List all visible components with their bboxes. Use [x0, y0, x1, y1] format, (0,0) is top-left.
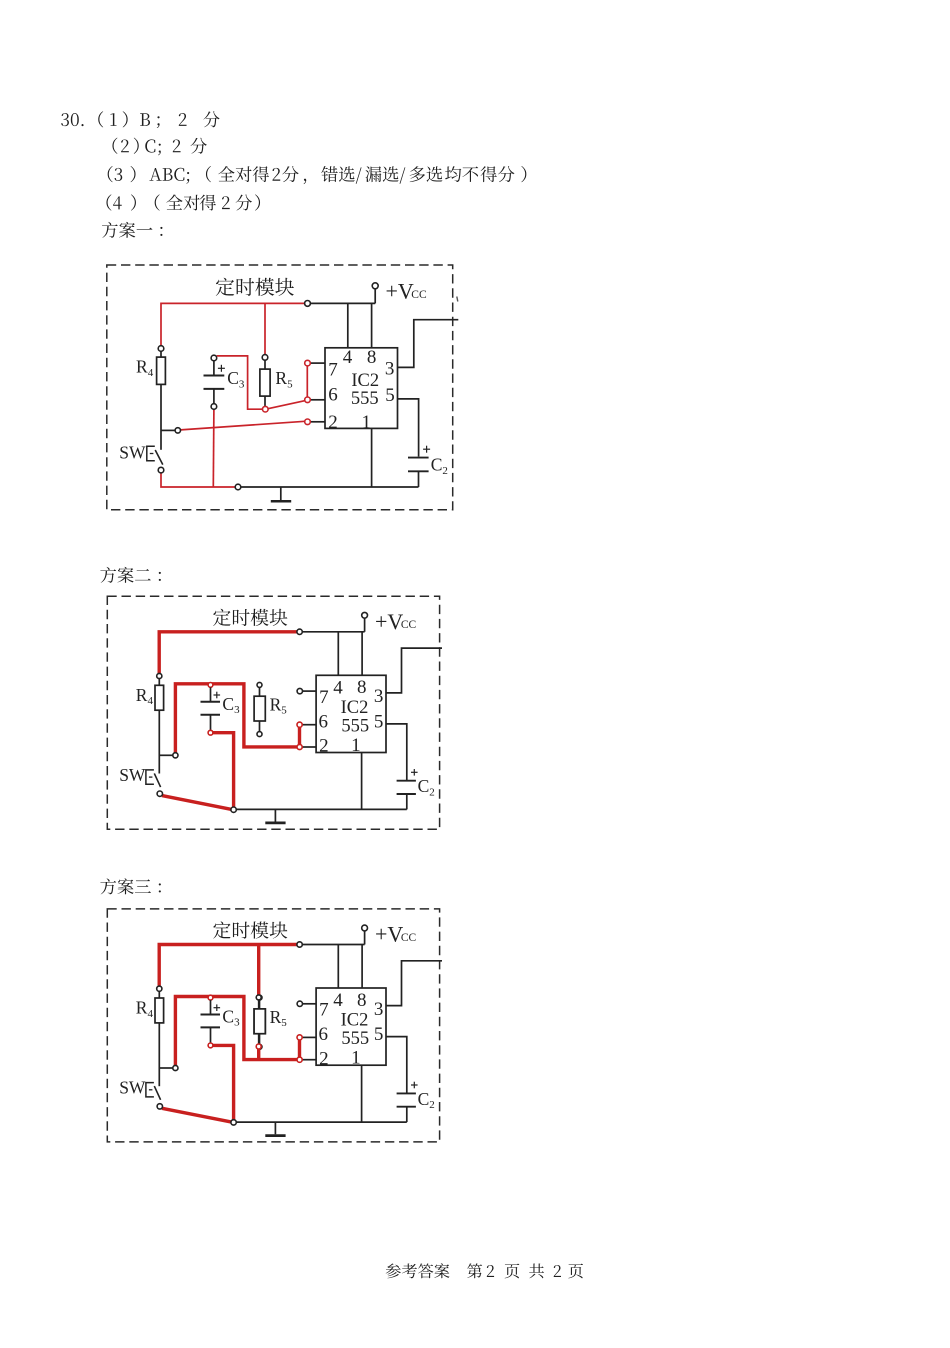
- svg-text:7: 7: [328, 360, 338, 381]
- svg-text:6: 6: [328, 385, 338, 406]
- svg-text:+V: +V: [375, 609, 403, 634]
- svg-text:CC: CC: [401, 932, 417, 944]
- svg-text:1: 1: [351, 1048, 361, 1069]
- svg-text:5: 5: [287, 378, 293, 390]
- svg-text:SW: SW: [119, 443, 146, 463]
- svg-text:IC2: IC2: [341, 1011, 369, 1031]
- svg-text:3: 3: [374, 686, 384, 707]
- svg-text:5: 5: [374, 711, 384, 732]
- svg-text:SW: SW: [119, 1078, 146, 1098]
- svg-text:1: 1: [351, 735, 361, 756]
- svg-text:8: 8: [367, 347, 377, 368]
- svg-text:7: 7: [319, 1000, 329, 1021]
- svg-text:C: C: [222, 1007, 234, 1027]
- svg-text:5: 5: [374, 1024, 384, 1045]
- svg-text:C: C: [222, 694, 234, 714]
- svg-text:2: 2: [328, 412, 338, 433]
- svg-text:3: 3: [239, 378, 245, 390]
- svg-text:+V: +V: [386, 279, 414, 304]
- svg-text:CC: CC: [401, 619, 417, 631]
- svg-text:IC2: IC2: [341, 698, 369, 718]
- svg-text:4: 4: [148, 1008, 154, 1020]
- svg-text:555: 555: [341, 717, 369, 737]
- svg-text:2: 2: [319, 736, 329, 757]
- svg-text:3: 3: [234, 1017, 240, 1029]
- svg-text:C: C: [418, 776, 430, 796]
- svg-text:555: 555: [351, 389, 379, 409]
- svg-text:2: 2: [429, 786, 435, 798]
- svg-text:8: 8: [357, 677, 367, 698]
- svg-text:1: 1: [361, 412, 371, 433]
- svg-text:8: 8: [357, 990, 367, 1011]
- svg-text:5: 5: [385, 385, 395, 406]
- svg-text:4: 4: [148, 695, 154, 707]
- svg-text:5: 5: [281, 1017, 287, 1029]
- svg-text:4: 4: [333, 990, 343, 1011]
- svg-text:555: 555: [341, 1029, 369, 1049]
- svg-text:6: 6: [318, 1024, 328, 1045]
- svg-text:2: 2: [319, 1048, 329, 1069]
- svg-text:4: 4: [148, 367, 154, 379]
- svg-text:R: R: [136, 998, 148, 1018]
- svg-text:3: 3: [234, 704, 240, 716]
- svg-text:4: 4: [333, 678, 343, 699]
- svg-text:2: 2: [429, 1099, 435, 1111]
- svg-text:3: 3: [374, 999, 384, 1020]
- svg-text:R: R: [136, 357, 148, 377]
- svg-text:SW: SW: [119, 765, 146, 785]
- svg-text:3: 3: [385, 359, 395, 380]
- svg-text:C: C: [227, 368, 239, 388]
- svg-text:CC: CC: [411, 289, 427, 301]
- svg-text:R: R: [136, 685, 148, 705]
- svg-text:C: C: [418, 1089, 430, 1109]
- svg-text:+V: +V: [375, 922, 403, 947]
- svg-text:7: 7: [319, 687, 329, 708]
- svg-text:R: R: [275, 368, 287, 388]
- svg-text:5: 5: [281, 705, 287, 717]
- svg-text:R: R: [270, 694, 282, 714]
- svg-text:C: C: [431, 455, 443, 475]
- svg-text:4: 4: [343, 347, 353, 368]
- svg-text:R: R: [270, 1007, 282, 1027]
- svg-text:6: 6: [318, 711, 328, 732]
- svg-text:2: 2: [442, 465, 448, 477]
